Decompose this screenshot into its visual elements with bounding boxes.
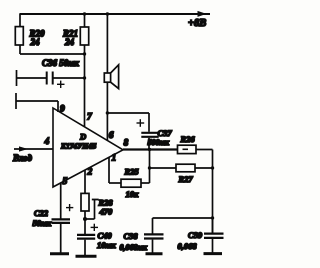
wire pin 1 down [108, 157, 110, 183]
svg-text:24: 24 [64, 37, 75, 47]
wire pin 6 [106, 113, 108, 141]
svg-text:R25: R25 [124, 167, 140, 177]
wire C38 top lead [152, 218, 154, 234]
wire R28 bottom lead [84, 211, 86, 219]
svg-text:D: D [79, 132, 86, 142]
wire R26 right to corner [196, 149, 213, 151]
svg-text:C37: C37 [158, 128, 173, 138]
wire pin 2 down to R28 [84, 170, 86, 193]
node R21 bottom junction [83, 52, 86, 55]
resistor R21 [80, 27, 88, 45]
wire R20 top lead [19, 13, 21, 26]
svg-text:C40: C40 [98, 231, 113, 241]
label C38 0,068мк [120, 231, 148, 252]
svg-text:C22: C22 [34, 208, 49, 218]
capacitor C22 [52, 219, 71, 223]
wire middle vertical to pin 7 [84, 45, 86, 127]
svg-text:8: 8 [124, 139, 129, 149]
wire R20-R21 bottom connecting line [20, 53, 85, 55]
resistor R20 [15, 27, 23, 45]
node output/C37 junction [148, 148, 151, 151]
label C40 polarity + [91, 224, 98, 231]
wire feedback vertical [149, 150, 151, 184]
svg-text:7: 7 [87, 113, 93, 123]
wire C37 bottom lead [148, 138, 150, 150]
node R27 left tee [148, 166, 151, 169]
node R27 right junction [211, 166, 214, 169]
power arrow +8V [198, 11, 207, 17]
svg-text:0,068: 0,068 [178, 241, 198, 251]
wire input pin 4 [14, 148, 53, 150]
svg-text:6: 6 [109, 131, 114, 141]
svg-text:470: 470 [99, 207, 114, 217]
op-amp D К174УН4Б triangle [53, 108, 123, 187]
wire output line pin 8 [123, 148, 178, 150]
wire R25 right lead [141, 182, 150, 184]
wire C22 bottom lead [60, 224, 62, 253]
ground C40 [76, 255, 97, 258]
wire C38-C39 bottom line [153, 217, 213, 219]
svg-text:24: 24 [30, 37, 41, 47]
svg-text:1: 1 [112, 154, 117, 164]
node C36 tee junction [83, 76, 86, 79]
capacitor C36 [47, 72, 53, 85]
node rail-R21 junction [83, 12, 86, 15]
label C37 500мк [148, 128, 173, 147]
label C22 50мк [33, 208, 52, 228]
svg-text:10мк: 10мк [97, 240, 116, 250]
capacitor C37 [141, 133, 158, 137]
svg-text:+8В: +8В [188, 18, 206, 29]
resistor R25 [121, 179, 141, 187]
node R28/C40 junction [83, 217, 87, 221]
svg-text:Вход: Вход [12, 153, 33, 163]
svg-text:C38: C38 [124, 231, 139, 241]
wire C39 top lead [212, 218, 214, 233]
wire C39 bottom lead [212, 239, 214, 253]
svg-text:C39: C39 [188, 230, 203, 240]
wire right vertical [212, 150, 214, 234]
wire open terminal branch right of R28 [85, 200, 99, 220]
wire C36 left with open terminal bar [17, 70, 47, 86]
svg-text:R26: R26 [180, 134, 196, 144]
svg-text:50мк: 50мк [33, 218, 52, 228]
svg-text:5: 5 [63, 177, 68, 187]
wire C37 top lead [107, 113, 149, 132]
wire pin 9 line with open terminal bar [16, 93, 58, 112]
label C37 polarity + [137, 119, 145, 127]
wire C38 bottom lead [152, 240, 154, 254]
wire R20 bottom lead [19, 45, 21, 54]
svg-text:R27: R27 [178, 174, 194, 184]
svg-text:4: 4 [44, 137, 50, 147]
resistor R28 [81, 193, 89, 211]
speaker [104, 65, 118, 89]
label R28 value 470 [98, 198, 114, 217]
wire R21 top lead [84, 14, 86, 27]
wire R27 right lead [195, 167, 213, 169]
wire speaker to pin 6 node [106, 82, 108, 113]
node rail-speaker junction [106, 12, 109, 15]
ground C39 [204, 252, 223, 255]
input arrow [19, 146, 28, 151]
node speaker/C37/pin6 junction [106, 111, 109, 114]
wire C40 top lead [84, 219, 86, 234]
wire pin 5 down to C22 [60, 183, 62, 219]
resistor R27 [176, 164, 195, 172]
label C40 10мк [97, 231, 116, 251]
svg-text:2: 2 [87, 168, 93, 178]
svg-text:C36 50мк: C36 50мк [42, 58, 79, 68]
svg-text:500мк: 500мк [148, 138, 170, 147]
ground C38 [146, 252, 163, 255]
capacitor C39 [204, 234, 224, 238]
label C39 0,068 [178, 230, 203, 251]
capacitor C38 [144, 234, 164, 238]
wire pin1 to R25 [109, 182, 121, 184]
label C36 polarity + [57, 81, 65, 88]
wire R27 left lead [150, 167, 177, 169]
wire C36 right to pin7 vertical [53, 77, 85, 79]
ground C22 [50, 252, 69, 255]
capacitor C40 [77, 235, 95, 239]
resistor R26 [178, 145, 197, 153]
svg-text:К174УН4Б: К174УН4Б [60, 142, 97, 151]
label C22 polarity + [66, 204, 73, 211]
wire +8V top rail [20, 13, 210, 15]
svg-text:10к: 10к [126, 189, 140, 199]
svg-text:0,068мк: 0,068мк [120, 243, 148, 252]
label R20 value 24 [29, 29, 46, 48]
label R21 value 24 [62, 29, 78, 48]
wire C40 bottom lead [84, 240, 86, 256]
node C38 line tee [211, 216, 214, 219]
wire speaker branch from rail [106, 14, 108, 73]
